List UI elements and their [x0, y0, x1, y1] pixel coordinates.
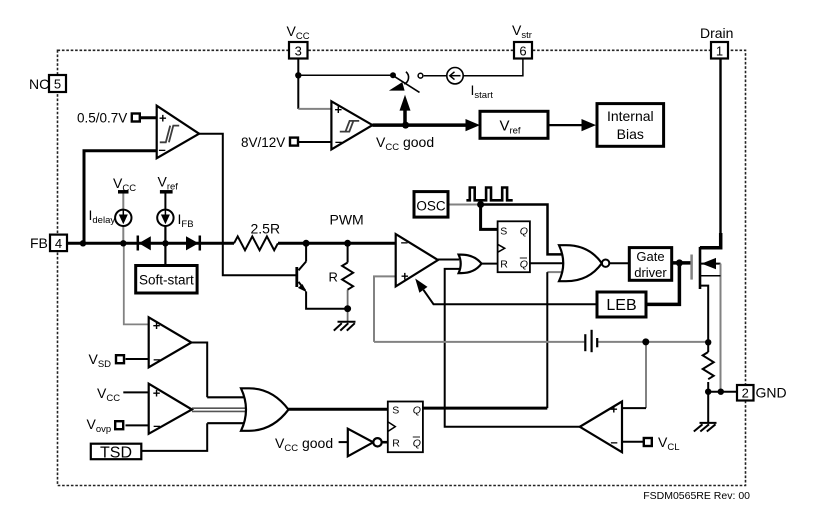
svg-text:Q: Q [520, 226, 528, 238]
svg-text:TSD: TSD [100, 445, 132, 462]
svg-text:1: 1 [716, 43, 723, 58]
svg-text:–: – [153, 352, 160, 367]
svg-text:Internal: Internal [607, 108, 654, 124]
svg-text:Drain: Drain [700, 25, 733, 41]
svg-text:8V/12V: 8V/12V [241, 135, 285, 150]
svg-text:+: + [153, 386, 161, 401]
svg-text:GND: GND [756, 385, 787, 401]
svg-text:–: – [335, 134, 342, 149]
svg-text:2.5R: 2.5R [251, 221, 281, 237]
svg-text:PWM: PWM [330, 212, 364, 228]
svg-text:R: R [500, 258, 508, 270]
svg-text:R: R [329, 270, 338, 285]
svg-text:S: S [500, 226, 507, 238]
svg-text:+: + [153, 318, 161, 333]
svg-text:+: + [401, 269, 409, 284]
svg-text:2: 2 [742, 386, 749, 401]
svg-text:–: – [611, 435, 618, 450]
svg-text:driver: driver [634, 265, 667, 280]
svg-text:+: + [335, 102, 343, 117]
svg-text:OSC: OSC [416, 199, 446, 214]
svg-text:Gate: Gate [636, 249, 664, 264]
svg-text:Soft-start: Soft-start [139, 273, 194, 288]
svg-text:Q: Q [413, 438, 421, 450]
svg-text:S: S [392, 404, 399, 416]
svg-text:–: – [159, 142, 166, 157]
svg-text:Bias: Bias [617, 126, 644, 142]
svg-text:NC: NC [29, 76, 49, 92]
svg-text:FB: FB [30, 235, 48, 251]
svg-text:–: – [401, 235, 408, 250]
svg-text:3: 3 [295, 43, 302, 58]
svg-text:LEB: LEB [606, 297, 636, 314]
svg-text:5: 5 [54, 76, 61, 91]
svg-text:R: R [392, 438, 400, 450]
svg-text:Q: Q [413, 404, 421, 416]
svg-text:+: + [159, 111, 167, 126]
svg-text:4: 4 [55, 236, 62, 251]
svg-text:FSDM0565RE Rev: 00: FSDM0565RE Rev: 00 [643, 490, 750, 502]
svg-text:–: – [153, 418, 160, 433]
svg-text:6: 6 [519, 43, 526, 58]
svg-text:0.5/0.7V: 0.5/0.7V [77, 111, 127, 126]
svg-text:+: + [610, 402, 618, 417]
svg-text:Q: Q [520, 258, 528, 270]
